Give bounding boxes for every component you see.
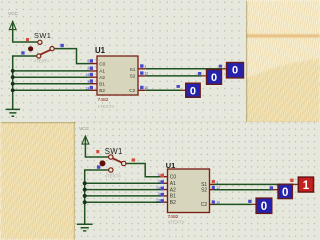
svg-text:A1: A1 bbox=[170, 181, 176, 187]
svg-text:10: 10 bbox=[144, 86, 148, 90]
svg-text:<TEXT>: <TEXT> bbox=[98, 104, 115, 109]
svg-text:C0: C0 bbox=[170, 175, 177, 181]
svg-text:1: 1 bbox=[144, 65, 146, 69]
svg-text:2: 2 bbox=[158, 180, 160, 184]
svg-text:3: 3 bbox=[158, 192, 160, 196]
svg-text:0: 0 bbox=[211, 72, 217, 84]
svg-text:SW1: SW1 bbox=[34, 31, 51, 40]
svg-text:0: 0 bbox=[232, 64, 238, 76]
svg-text:C2: C2 bbox=[129, 88, 135, 93]
svg-text:2: 2 bbox=[87, 67, 89, 71]
svg-text:12: 12 bbox=[144, 72, 148, 76]
svg-text:B2: B2 bbox=[99, 88, 105, 93]
svg-text:U1: U1 bbox=[166, 161, 175, 170]
svg-text:C0: C0 bbox=[99, 61, 105, 66]
svg-text:12: 12 bbox=[216, 186, 220, 190]
svg-text:VCC: VCC bbox=[79, 126, 90, 132]
svg-text:VCC: VCC bbox=[8, 11, 19, 17]
svg-text:1: 1 bbox=[216, 180, 218, 184]
svg-text:7482: 7482 bbox=[98, 97, 109, 103]
svg-text:S1: S1 bbox=[130, 67, 136, 72]
svg-text:10: 10 bbox=[216, 200, 220, 204]
svg-text:B1: B1 bbox=[170, 194, 176, 200]
svg-text:A1: A1 bbox=[99, 69, 105, 74]
svg-text:<TEXT>: <TEXT> bbox=[34, 59, 50, 64]
svg-text:1: 1 bbox=[303, 180, 310, 192]
svg-text:B1: B1 bbox=[99, 81, 105, 86]
svg-text:0: 0 bbox=[282, 187, 288, 199]
svg-text:5: 5 bbox=[158, 173, 160, 177]
svg-text:A2: A2 bbox=[99, 75, 105, 80]
svg-text:C2: C2 bbox=[201, 202, 208, 208]
svg-text:SW1: SW1 bbox=[105, 147, 123, 156]
svg-text:S2: S2 bbox=[130, 74, 136, 79]
svg-text:14: 14 bbox=[85, 73, 89, 77]
svg-text:U1: U1 bbox=[95, 46, 106, 55]
svg-text:S2: S2 bbox=[201, 188, 207, 194]
svg-text:14: 14 bbox=[156, 186, 160, 190]
svg-text:3: 3 bbox=[87, 80, 89, 84]
svg-text:13: 13 bbox=[156, 198, 160, 202]
svg-text:<TEXT>: <TEXT> bbox=[168, 220, 185, 225]
svg-text:13: 13 bbox=[85, 86, 89, 90]
svg-text:<TEXT>: <TEXT> bbox=[105, 173, 122, 178]
svg-text:0: 0 bbox=[261, 201, 267, 213]
svg-text:A2: A2 bbox=[170, 187, 176, 193]
svg-text:5: 5 bbox=[87, 60, 89, 64]
svg-text:B2: B2 bbox=[170, 200, 176, 206]
svg-text:0: 0 bbox=[190, 86, 196, 98]
